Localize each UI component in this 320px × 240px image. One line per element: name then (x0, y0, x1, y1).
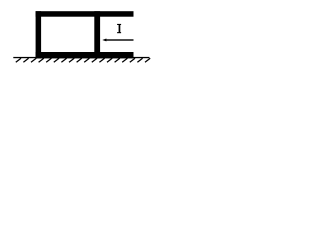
ground hatching (16, 58, 150, 62)
current label I (117, 24, 121, 33)
current arrow (102, 39, 133, 42)
sliding rod bar (94, 11, 100, 58)
bottom rail bar (36, 52, 134, 58)
left vertical bar (36, 11, 42, 58)
top rail bar (36, 11, 134, 17)
ground line (13, 57, 149, 58)
